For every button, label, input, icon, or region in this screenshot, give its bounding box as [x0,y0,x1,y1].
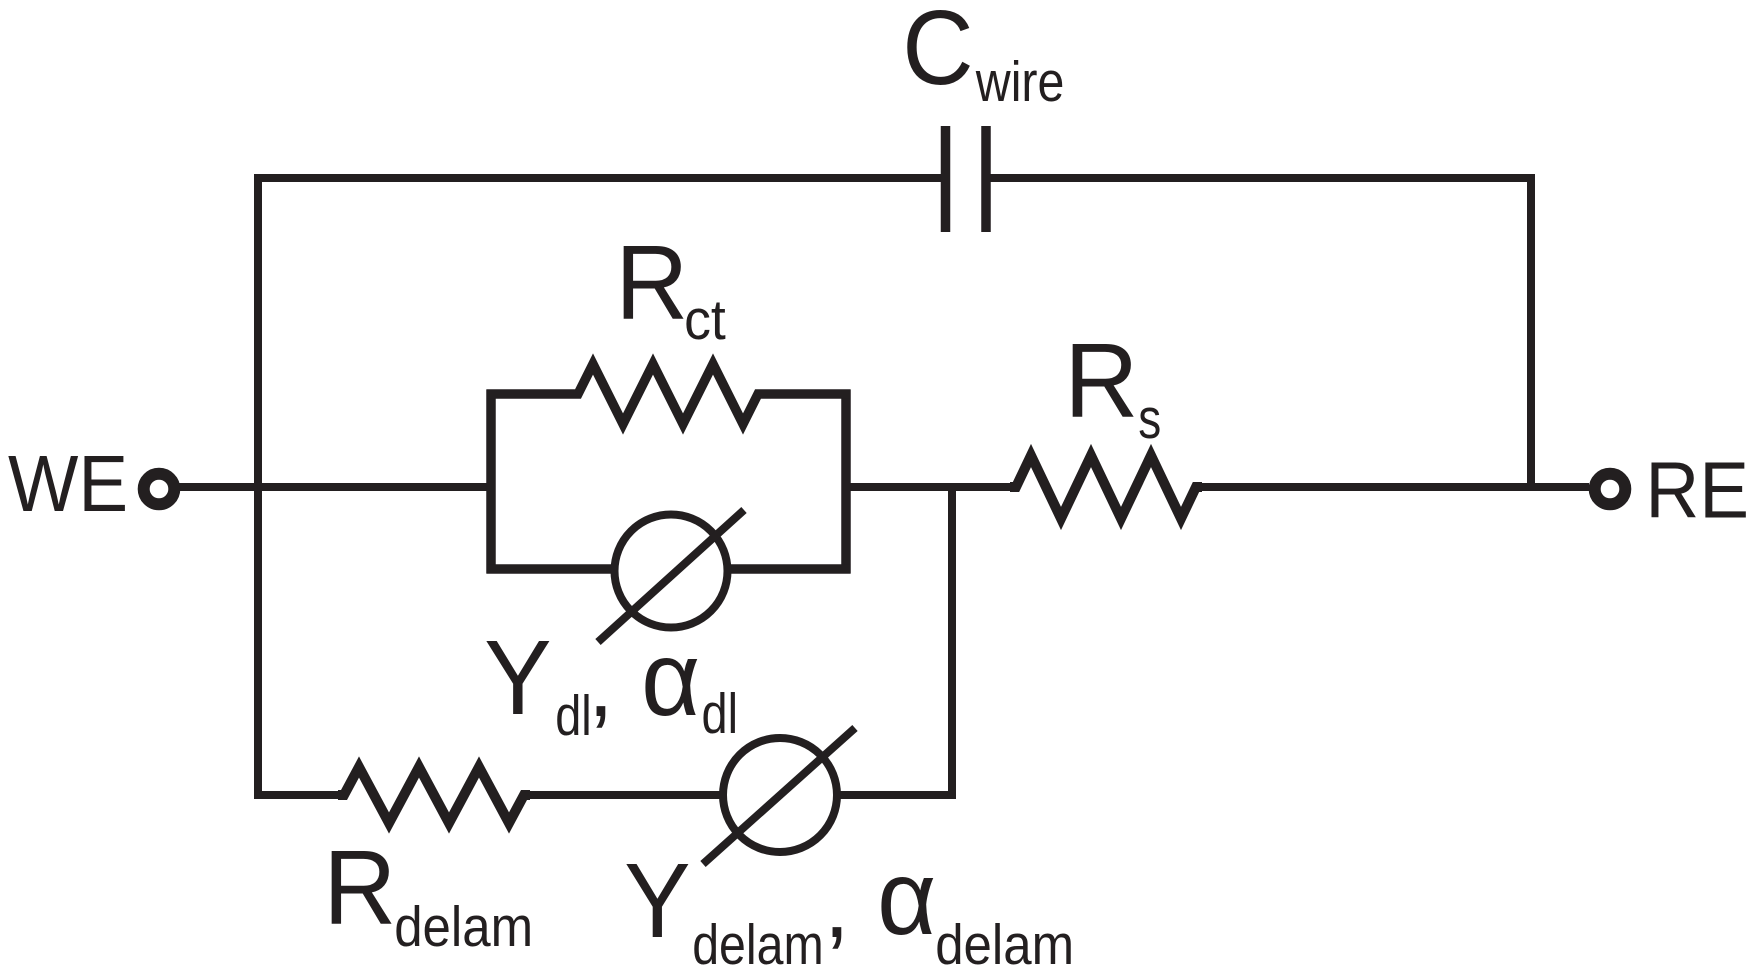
box right edge [841,390,851,574]
wire main horizontal right (R_s to RE) [1196,483,1589,491]
wire bottom left segment [254,791,344,799]
svg-text:delam: delam [394,895,533,959]
svg-text:ct: ct [684,288,726,352]
wire top left segment [254,174,941,182]
resistor R_s zigzag [1010,456,1202,519]
wire bottom right segment [838,791,956,799]
svg-text:dl: dl [555,684,592,748]
resistor R_delam zigzag [338,767,530,823]
terminal RE circle [1595,474,1626,505]
svg-text:WE: WE [8,439,128,528]
svg-text:dl: dl [702,682,739,746]
wire middle vertical branch [948,487,956,799]
svg-text:s: s [1138,387,1161,451]
svg-text:RE: RE [1645,446,1749,535]
svg-text:Y: Y [484,619,551,737]
wire left vertical branch [254,174,262,799]
CPE Y_dl slash [598,510,744,642]
CPE Y_delam circle [723,738,837,852]
svg-text:α: α [641,620,700,738]
CPE Y_delam slash [703,728,855,864]
box left edge of Rct/CPE parallel block [486,390,496,574]
svg-text:,: , [824,855,850,957]
wire top right segment [990,174,1535,182]
box top edge with resistor R_ct zigzag [487,364,851,424]
svg-text:wire: wire [975,50,1064,114]
svg-text:delam: delam [935,913,1074,972]
svg-text:C: C [902,0,973,107]
svg-text:R: R [1064,322,1138,440]
svg-text:Y: Y [624,842,691,960]
capacitor C_wire [946,126,987,232]
wire main horizontal middle (box to R_s) [846,483,1016,491]
box bottom edge segments [487,564,851,574]
svg-text:R: R [323,829,396,947]
svg-text:delam: delam [692,913,824,972]
wire bottom middle segment [524,791,722,799]
wire main horizontal left (WE to box) [177,483,491,491]
wire right vertical [1527,174,1535,491]
svg-text:R: R [615,224,688,342]
terminal WE circle [144,474,175,505]
CPE Y_dl circle [615,515,728,628]
svg-text:,: , [588,634,614,736]
svg-text:α: α [877,839,936,957]
